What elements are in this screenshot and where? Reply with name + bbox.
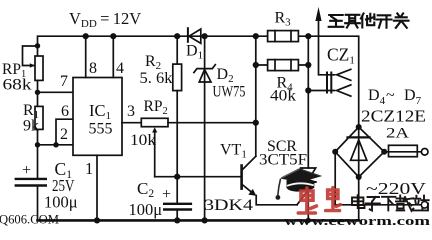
- wire plug bottom contact: [308, 90, 334, 92]
- svg-text:VDD = 12V: VDD = 12V: [69, 9, 141, 30]
- wire bridge right vertex to fuse: [389, 145, 418, 156]
- svg-text:UW75: UW75: [213, 84, 246, 101]
- wire pin 6 of IC1 with stub to pin2 line: [56, 119, 73, 145]
- hanzi ZHAN: [413, 196, 429, 211]
- watermark red bug 1 (chong): [298, 188, 316, 213]
- CJK label: to other switches (zhi qi ta kai guan) hand-drawn strokes: [329, 13, 409, 27]
- SCR triangle: [301, 168, 316, 180]
- hanzi TA: [361, 14, 375, 28]
- wire pin 3 of IC1 to RP2: [122, 122, 141, 124]
- svg-text:40k: 40k: [270, 88, 296, 105]
- transistor VT1 base bar: [240, 166, 243, 189]
- svg-text:2CZ12E: 2CZ12E: [361, 107, 426, 126]
- svg-text:+: +: [162, 186, 171, 203]
- resistor R3 end cap lines: [275, 31, 291, 42]
- wire R1 bottom to C1 top (pin2 node): [37, 129, 39, 177]
- hanzi ZI: [366, 197, 380, 211]
- svg-text:3DK4: 3DK4: [204, 197, 253, 214]
- RP2 wiper arrow line: [154, 132, 156, 177]
- wire bridge bottom to ground rail: [358, 177, 360, 220]
- capacitor C1 top plate: [16, 178, 46, 180]
- wire C2 bottom lead to ground: [176, 210, 178, 221]
- wire pin 4 of IC1 to VDD rail: [112, 36, 114, 77]
- wire RP1 bottom to R1 top (pin7 node): [37, 80, 39, 106]
- watermark red bug 2 (chong): [326, 188, 341, 211]
- svg-text:Q606.COM: Q606.COM: [0, 213, 59, 227]
- wire RP1 wiper loop to top node: [23, 46, 38, 66]
- wire pin 7 of IC1: [38, 91, 74, 93]
- svg-text:7: 7: [60, 73, 68, 90]
- capacitor C2 100u bottom plate: [164, 208, 191, 210]
- RP1 wiper arrowhead: [30, 63, 35, 68]
- svg-text:+: +: [22, 162, 31, 179]
- transistor VT1 emitter diagonal: [243, 185, 253, 193]
- wire VDD top rail from RP1 top to bridge top corner: [38, 36, 359, 127]
- wire R2 top lead from rail: [176, 36, 178, 64]
- connector CZ1 plug bar 2: [330, 73, 332, 93]
- wire SCR gate diagonal: [297, 190, 308, 205]
- svg-text:2: 2: [60, 126, 68, 143]
- capacitor C2 100u top plate: [164, 203, 191, 205]
- svg-text:68k: 68k: [3, 77, 32, 94]
- capacitor C1 bottom plate: [16, 184, 46, 186]
- zener diode D2 triangle: [199, 70, 211, 83]
- svg-text:9k: 9k: [23, 118, 39, 135]
- diode D1 triangle: [189, 29, 201, 43]
- svg-text:3: 3: [127, 103, 135, 120]
- wire pin 2 of IC1: [38, 144, 74, 146]
- svg-text:5. 6k: 5. 6k: [140, 70, 173, 87]
- op-amp IC1 555 timer box: [73, 78, 122, 156]
- wire pin 8 of IC1 to VDD rail: [85, 36, 87, 77]
- wire SCR cathode to ground rail: [307, 182, 309, 220]
- svg-text:2A: 2A: [386, 126, 409, 142]
- watermark graduation cap crown: [276, 168, 323, 200]
- svg-text:100μ: 100μ: [44, 193, 78, 212]
- watermark cap board: [280, 168, 322, 182]
- wire mains 220V line: [335, 204, 421, 206]
- hanzi KAI: [377, 15, 392, 27]
- svg-text:4: 4: [116, 60, 124, 77]
- wire R4 leads: [256, 64, 308, 66]
- wire VT1 collector up to node column: [255, 36, 257, 156]
- transistor VT1 emitter arrowhead: [248, 189, 256, 196]
- wire C1 bottom lead to ground rail corner: [37, 186, 39, 221]
- svg-text:1: 1: [85, 159, 93, 178]
- svg-text:555: 555: [89, 121, 113, 138]
- potentiometer RP1 68k body: [35, 56, 43, 80]
- watermark cap tassel: [278, 179, 281, 196]
- resistor R3 lead wires are on rail; R3 body: [268, 31, 299, 42]
- hanzi ZAI: [396, 196, 413, 211]
- bridge inner diode bar: [348, 136, 370, 138]
- RP2 wiper arrowhead: [152, 127, 157, 132]
- ground rail: [38, 219, 359, 222]
- wire zener D2 column from rail to ground: [204, 36, 206, 220]
- wire C2 top lead: [176, 177, 178, 203]
- connector CZ1 plug bar 1: [326, 73, 328, 93]
- SCR cathode bar: [301, 181, 316, 183]
- wire VT1 emitter to SCR gate: [256, 196, 297, 205]
- bridge rectifier D4-D7 diamond: [335, 127, 384, 177]
- mains terminal circle bottom: [421, 202, 428, 209]
- mains terminal circle top: [421, 149, 428, 156]
- wire R2 bottom to base-line junction: [176, 91, 178, 177]
- svg-text:10k: 10k: [130, 132, 156, 149]
- hanzi DIAN: [352, 195, 365, 208]
- arrowhead to other switches: [315, 7, 321, 21]
- resistor R2 5.6k body: [173, 64, 182, 91]
- diode D1 cathode bar: [187, 28, 189, 42]
- connector CZ1 socket fork top: [337, 69, 351, 80]
- connector CZ1 socket fork bottom: [337, 85, 351, 96]
- svg-text:~220V: ~220V: [366, 179, 427, 198]
- hanzi XIA: [382, 197, 395, 211]
- svg-text:100μ: 100μ: [129, 200, 163, 219]
- potentiometer RP2 10k body: [141, 118, 168, 126]
- svg-text:6: 6: [61, 103, 69, 120]
- fuse middle wire: [384, 151, 421, 153]
- hanzi QI: [345, 15, 360, 28]
- zener diode D2 UW75 cathode bar: [194, 65, 215, 73]
- hanzi ZHI: [329, 15, 344, 27]
- wire RP2 wiper line to VT1 base: [155, 176, 241, 178]
- wire R3R4 right node column down to SCR anode: [307, 36, 309, 168]
- transistor VT1 collector diagonal: [243, 156, 256, 169]
- hanzi GUAN: [394, 13, 409, 27]
- wire RP2 right terminal to R3R4 node column: [168, 122, 256, 124]
- bridge inner diode triangle: [351, 140, 367, 161]
- resistor R4 end cap lines: [275, 60, 291, 71]
- watermark cap band highlight: [287, 183, 314, 186]
- svg-text:3CT5F: 3CT5F: [259, 152, 307, 169]
- wire pin 1 of IC1 to ground rail: [96, 155, 98, 220]
- svg-text:www.eeworm.com: www.eeworm.com: [284, 213, 430, 227]
- wire arrow to other switches and plug top contact: [319, 19, 335, 75]
- svg-text:8: 8: [89, 60, 97, 77]
- wire bridge left vertex down to mains: [334, 152, 336, 205]
- resistor R4 40k body: [268, 60, 299, 71]
- watermark CJK: dian zi xia zai zhan (electronics download site): [352, 195, 429, 211]
- bridge inner axis wire: [358, 127, 360, 177]
- resistor R1 9k body: [35, 106, 43, 129]
